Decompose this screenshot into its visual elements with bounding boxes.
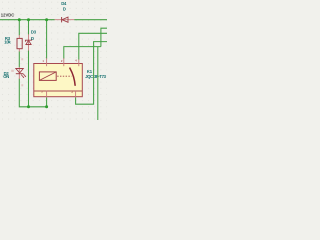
svg-text:JQC-3F-T73: JQC-3F-T73 [85,74,106,79]
wire V2 down to bottom edge [97,47,99,120]
wire coil pin T1 [46,20,48,59]
junction dot bus x46 [45,18,48,21]
faint mark 3 [21,84,23,86]
wire LED to bottom bus [19,79,46,107]
svg-text:D: D [63,7,66,12]
relay pin T1 [46,58,48,66]
wire zener bottom [28,50,30,106]
relay switch blade [70,68,76,86]
wire P from B2 to right edge [76,42,107,105]
zener D3 [25,39,31,45]
svg-text:12VDC: 12VDC [1,13,15,18]
wire zener top [28,20,30,35]
wire S from T3 to right edge [79,33,107,59]
wire R3 top [18,20,20,36]
relay pin B2 [75,90,77,97]
resistor R3 pins [18,35,20,38]
zener D3 pin through [28,34,30,50]
svg-text:ON: ON [3,74,9,79]
diode D4 pin through [55,19,75,21]
wire Q corner to right edge [101,28,107,46]
faint mark 1 [11,70,14,72]
diode D4 [62,17,68,22]
junction dot bus x19 [18,18,21,21]
relay K1 body [34,64,83,97]
svg-text:D3: D3 [31,29,37,34]
junction dot bottom x46 [45,105,48,108]
LED D2 [16,69,26,79]
wire T2 up and right to edge [64,47,101,59]
junction dot bus x28 [27,18,30,21]
LED D2 pin through [18,67,20,79]
svg-text:D4: D4 [61,1,67,6]
wire R3 to LED [18,51,20,67]
svg-text:D: D [31,36,34,41]
wire 12V bus [0,19,55,21]
junction dot bottom x28 [27,105,30,108]
relay coil [39,72,56,81]
resistor R3 [17,38,22,48]
wire 12V bus right of D4 [74,19,107,21]
faint mark 2 [21,58,23,60]
relay coupling dashed line [57,75,71,77]
relay pin B1 [46,91,48,98]
wire coil pin B1 to bottom bus [46,97,48,107]
svg-text:10k: 10k [4,39,11,44]
relay pin T2 [63,58,65,66]
relay pin T3 [78,59,80,66]
